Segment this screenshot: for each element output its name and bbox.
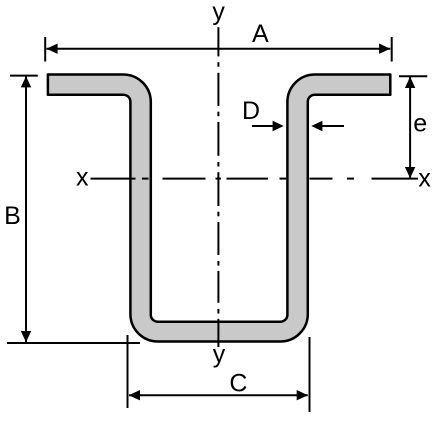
- dimension e bottom arrowhead: [405, 167, 415, 178]
- dimension e top tick: [399, 75, 427, 77]
- svg-text:B: B: [4, 202, 21, 230]
- dimension A right arrowhead: [379, 44, 390, 54]
- x centerline (horizontal dash-dot axis): [91, 178, 419, 180]
- dimension D right arrowhead (points left at web): [311, 121, 322, 131]
- y centerline (vertical dash-dot axis): [217, 27, 219, 347]
- dimension B top tick: [10, 75, 38, 77]
- dimension A left tick: [44, 37, 46, 62]
- dimension C right extension line: [309, 337, 311, 412]
- dimension C left arrowhead: [129, 390, 140, 400]
- dimension D right leader line: [322, 125, 345, 127]
- svg-text:A: A: [252, 20, 269, 48]
- svg-text:C: C: [229, 370, 247, 398]
- dimension B line: [25, 76, 27, 342]
- dimension A left arrowhead: [46, 44, 57, 54]
- dimension B top arrowhead: [21, 76, 31, 87]
- svg-text:x: x: [418, 164, 431, 192]
- hat channel profile cross-section: [48, 75, 390, 342]
- dimension C right arrowhead: [297, 390, 308, 400]
- svg-text:e: e: [413, 109, 427, 137]
- dimension C line: [129, 394, 308, 396]
- dimension e line: [409, 77, 411, 178]
- dimension B bottom tick: [7, 342, 140, 344]
- dimension C left extension line: [127, 335, 129, 408]
- svg-text:y: y: [213, 341, 226, 369]
- dimension A line: [46, 48, 390, 50]
- dimension e top arrowhead: [405, 77, 415, 88]
- svg-text:y: y: [212, 0, 225, 26]
- dimension B bottom arrowhead: [21, 331, 31, 342]
- dimension D left arrowhead (points right at web): [273, 121, 284, 131]
- svg-text:x: x: [76, 164, 89, 192]
- svg-text:D: D: [242, 97, 260, 125]
- dimension D left leader line: [252, 125, 274, 127]
- dimension A right tick: [391, 37, 393, 62]
